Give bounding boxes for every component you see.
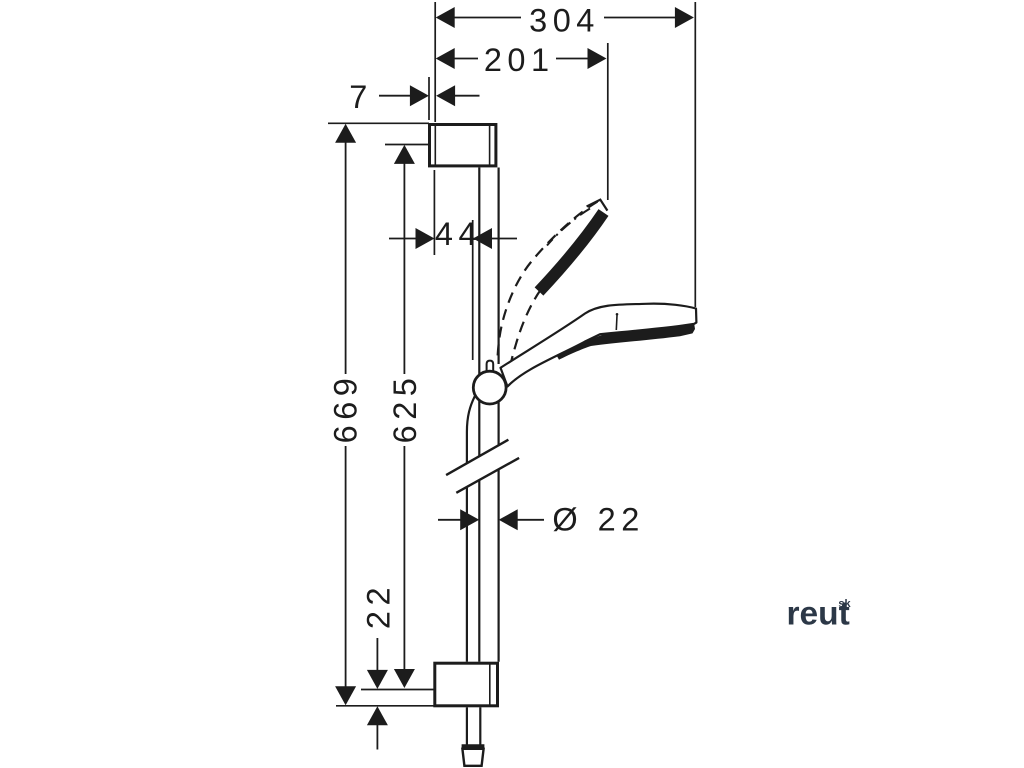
rail right edge	[498, 168, 500, 365]
extension line 625 top level	[385, 144, 428, 146]
dimension line 44	[389, 238, 416, 240]
head seam tick	[615, 316, 618, 331]
dashed shower raised position	[497, 200, 607, 368]
extension line bracket bottom (669 ref)	[336, 705, 434, 707]
pipe break slash upper	[446, 440, 508, 475]
dashed inner outline	[510, 290, 541, 368]
arrowhead 22 up	[367, 706, 388, 725]
raised head tip	[587, 200, 608, 211]
svg-text:625: 625	[387, 373, 423, 444]
arrowhead dia22 right	[499, 509, 518, 530]
slider ball	[473, 371, 506, 404]
dimension line 22	[376, 638, 378, 670]
extension line 44 left	[433, 170, 435, 255]
arrowhead 625 top	[394, 145, 415, 164]
extension line of 7 (bracket left edge)	[428, 77, 430, 120]
arrowhead dia22 left	[460, 509, 479, 530]
extension line right of 304 (head right edge)	[694, 2, 696, 307]
extension line of 201 (raised head tip)	[607, 43, 609, 200]
reut watermark logo	[787, 596, 852, 633]
dimension line 7	[379, 95, 410, 97]
svg-text:sk: sk	[838, 598, 851, 610]
svg-text:22: 22	[361, 582, 397, 629]
top wall bracket	[430, 125, 496, 166]
raised head spray face	[539, 213, 604, 292]
extension line rail top level	[328, 122, 429, 124]
extension line rail bottom (625 ref)	[361, 689, 434, 691]
hose from ball	[467, 396, 475, 463]
svg-text:44: 44	[435, 216, 482, 252]
hose below bracket	[467, 707, 480, 744]
dash-dot centerline	[547, 209, 590, 246]
arrowhead 44 right	[473, 228, 492, 249]
svg-text:669: 669	[327, 373, 363, 444]
dimension line dia22	[438, 519, 461, 521]
head spray face band	[557, 324, 695, 360]
extension line left (wall plate inner edge, x=435)	[434, 2, 436, 122]
arrowhead 22 down	[367, 670, 388, 689]
arrowhead 44 left	[416, 228, 435, 249]
extension line 44 right (ball tangent)	[472, 220, 474, 360]
bottom wall bracket	[435, 663, 498, 706]
dimension line 201	[454, 58, 478, 60]
svg-text:7: 7	[349, 79, 373, 115]
arrowhead 201 left	[436, 48, 455, 69]
pipe break slash lower	[456, 458, 519, 493]
svg-text:Ø 22: Ø 22	[552, 501, 644, 537]
slider knob	[487, 361, 494, 375]
rail left edge	[478, 168, 480, 457]
arrowhead 201 right	[588, 48, 607, 69]
arrowhead 7 right-pointing	[410, 85, 429, 106]
dimension line 625	[403, 164, 405, 375]
arrowhead 625 bottom	[394, 669, 415, 688]
hose conical nut	[462, 747, 485, 766]
dashed outer outline	[497, 202, 597, 362]
svg-text:304: 304	[529, 2, 600, 38]
arrowhead 669 top	[335, 124, 356, 143]
svg-text:201: 201	[484, 42, 555, 78]
dimension line 304	[454, 17, 521, 19]
solid hand shower	[501, 304, 697, 387]
rail tube	[467, 168, 499, 662]
hose right edge below bracket	[479, 707, 481, 744]
arrowhead 304 left	[436, 7, 455, 28]
arrowhead 669 bottom	[335, 686, 356, 705]
arrowhead 304 right	[675, 7, 694, 28]
arrowhead 7 left-pointing	[436, 85, 455, 106]
hose left edge below bracket	[466, 707, 468, 744]
dimension line 669	[345, 143, 347, 375]
